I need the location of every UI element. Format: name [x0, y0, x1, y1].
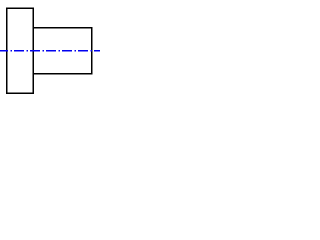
- right rectangle (shaft body outline): [33, 28, 92, 74]
- centerline (blue dash-dot axis): [0, 50, 102, 52]
- left rectangle (flange outline): [7, 8, 34, 93]
